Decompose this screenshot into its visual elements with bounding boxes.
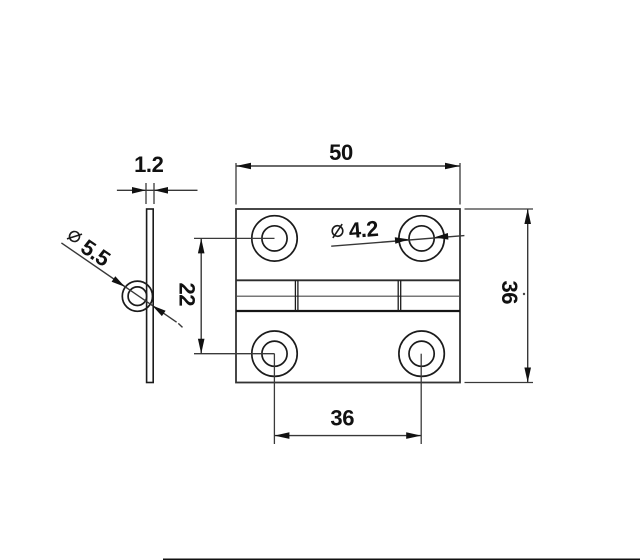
dimension 22: extension line bottom (to hole center) — [194, 353, 275, 355]
hole bottom-left — [252, 331, 297, 376]
dimension 50: arrow left — [236, 163, 251, 170]
leader diameter 5.5: leader line — [61, 243, 176, 322]
dimension 36 right: dimension line — [527, 209, 529, 383]
dimension 36 bottom: arrow left — [274, 432, 289, 439]
side view plate (thickness 1.2) — [147, 209, 154, 383]
side view knuckle barrel outer — [122, 281, 152, 311]
leader diameter 4.2: leader line — [331, 236, 464, 247]
dimension 22: arrow bottom — [198, 339, 205, 354]
dimension 50: extension line right — [459, 163, 461, 205]
hole bottom-right — [399, 331, 444, 376]
dimension 1.2: arrow left (pointing right) — [132, 187, 146, 194]
leader diameter 5.5: arrow lower (pointing to circle) — [152, 306, 165, 317]
dimension 50: dimension line — [236, 165, 460, 167]
dimension 50: arrow right — [445, 163, 460, 170]
svg-text:36: 36 — [330, 406, 354, 431]
dimension 1.2: extension line left — [145, 183, 147, 204]
svg-text:1.2: 1.2 — [134, 152, 164, 177]
leader diameter 5.5: arrow upper (pointing to circle) — [112, 276, 125, 287]
dimension 36 bottom: extension line left (from hole center down) — [273, 354, 275, 444]
leader diameter 4.2: arrow right (inward) — [434, 233, 448, 240]
dimension 50: extension line left — [235, 163, 237, 205]
dimension 22: extension line top (to hole center) — [194, 237, 275, 239]
dimension 1.2: dimension line with tails — [117, 189, 198, 191]
knuckle divider left pair — [294, 280, 296, 311]
hole top-right — [399, 216, 444, 261]
stray dot mark — [523, 293, 525, 295]
leader diameter 5.5: diameter symbol — [67, 229, 82, 245]
sheet border line bottom — [163, 558, 640, 560]
dimension 1.2: arrow right (pointing left) — [154, 187, 168, 194]
hole top-left — [252, 216, 297, 261]
dimension 22: arrow top — [198, 238, 205, 253]
knuckle bottom line — [236, 310, 460, 312]
knuckle divider right pair — [397, 280, 399, 311]
dimension 36 right: arrow bottom — [524, 368, 531, 383]
dimension 1.2: extension line right — [153, 183, 155, 204]
svg-text:4.2: 4.2 — [348, 216, 379, 243]
front view outline (hinge leaf 50x36) — [236, 209, 460, 383]
knuckle center line — [236, 295, 460, 297]
svg-text:50: 50 — [329, 140, 353, 165]
dimension 36 bottom: dimension line — [274, 435, 421, 437]
dimension 22: dimension line — [200, 238, 202, 353]
side view knuckle barrel inner — [128, 287, 147, 306]
dimension 36 bottom: extension line right (from hole center down) — [420, 354, 422, 444]
dimension 36 right: extension line bottom — [465, 382, 534, 384]
svg-text:22: 22 — [175, 282, 200, 306]
knuckle top line — [236, 279, 460, 281]
dimension 36 bottom: arrow right — [406, 432, 421, 439]
leader diameter 5.5: end dash — [178, 323, 182, 327]
leader diameter 4.2: arrow left (inward) — [395, 237, 409, 244]
svg-text:36: 36 — [497, 280, 522, 304]
dimension 36 right: extension line top — [465, 208, 534, 210]
svg-text:5.5: 5.5 — [76, 234, 115, 271]
dimension 36 right: arrow top — [524, 209, 531, 224]
leader diameter 4.2: diameter symbol — [332, 224, 344, 238]
